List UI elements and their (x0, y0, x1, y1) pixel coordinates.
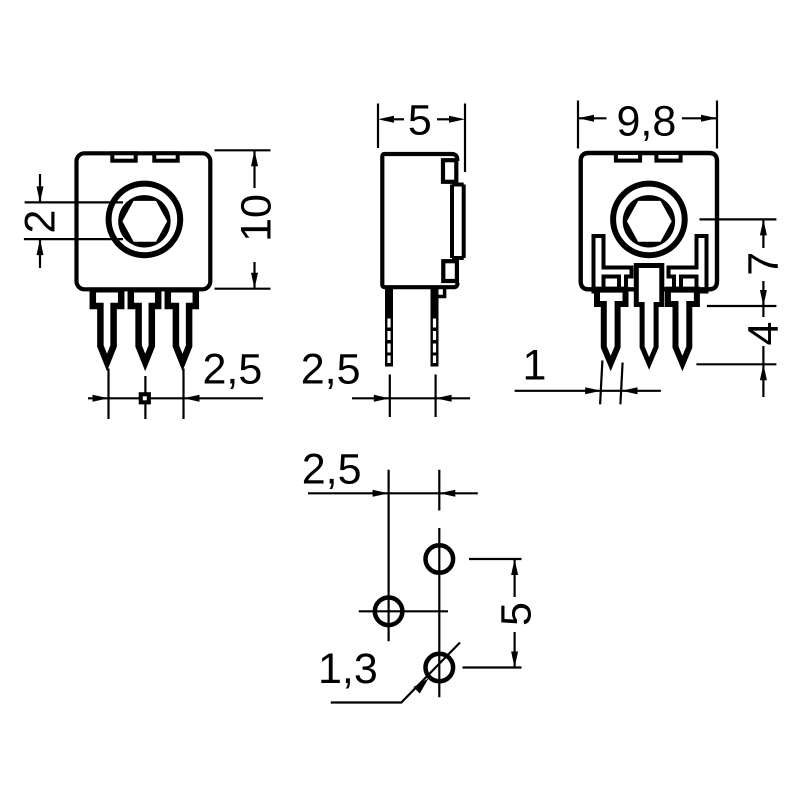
svg-text:2,5: 2,5 (302, 445, 362, 493)
svg-text:5: 5 (408, 97, 432, 145)
svg-text:1,3: 1,3 (318, 645, 378, 693)
svg-text:4: 4 (740, 322, 788, 346)
svg-text:10: 10 (233, 194, 281, 242)
svg-text:2,5: 2,5 (301, 346, 361, 394)
svg-text:1: 1 (522, 342, 546, 390)
svg-text:9,8: 9,8 (617, 98, 677, 146)
svg-text:7: 7 (740, 252, 788, 276)
svg-text:5: 5 (493, 602, 541, 626)
svg-text:2: 2 (17, 210, 65, 234)
svg-text:2,5: 2,5 (203, 346, 263, 394)
